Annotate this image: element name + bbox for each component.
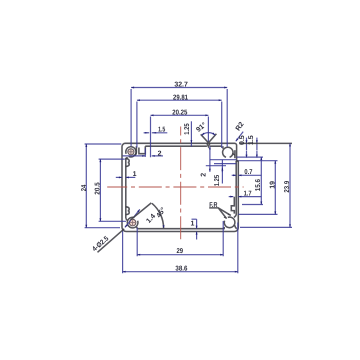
dim 20.25 extension lines [151,117,209,158]
dim 1.5 line with outside arrows [144,132,168,134]
lid slot dim leader x222.4 [221,160,223,184]
dim 20.25 line [151,114,209,116]
top-left screw hole [128,149,134,155]
right wall lower inner line [235,161,237,215]
svg-text:2: 2 [158,150,162,157]
dim 38.6 line [123,271,238,273]
svg-text:2: 2 [200,173,207,177]
extension line y157 [237,156,264,158]
lid slot extension line y165.7 [206,165,226,167]
right wall upper inner line [234,150,236,158]
top-left boss hook [133,146,136,155]
svg-text:29: 29 [177,248,184,255]
svg-text:1.5: 1.5 [248,135,255,145]
angle 45 arm [131,203,152,220]
top-left inner ledge [126,157,128,159]
dim 29.81 line [137,99,222,101]
svg-text:0.7: 0.7 [244,169,252,176]
profile top wall inner line [145,145,222,147]
dim 15.6 line [260,157,262,204]
bottom-left screw boss channel [127,217,138,228]
bottom-left boss floor fillet [126,218,138,228]
dim 24 line [85,144,87,228]
svg-text:23.9: 23.9 [284,181,291,193]
svg-text:1.7: 1.7 [244,191,252,198]
profile outer outline [122,143,238,231]
svg-text:1.5: 1.5 [158,126,165,133]
angle 91 arms [201,134,217,143]
angle 91 arc [202,133,215,136]
dim 29.81 extension lines [137,102,222,149]
top wall extension line right [240,142,293,144]
svg-text:0.5: 0.5 [239,135,246,145]
bottom-left screw cross [130,220,135,225]
right wall groove lip notch [231,197,234,214]
svg-text:20.25: 20.25 [172,109,187,116]
right wall step at ledge [237,160,239,162]
svg-text:1: 1 [133,171,137,178]
angle 45 arc [152,203,164,228]
bottom-right screw boss channel [224,217,235,228]
radius R2 leader [236,132,243,142]
lid slot extension line y163.6 [214,163,236,165]
dim 29 line [137,254,223,256]
bottom wall inner line [138,228,225,230]
F.R leader arrows [224,216,227,218]
svg-text:19: 19 [270,181,277,189]
left wall rib lower [126,207,129,215]
lid slot dim leader x209.9 [209,146,211,171]
svg-text:1.25: 1.25 [214,175,221,186]
svg-text:38.6: 38.6 [175,265,187,272]
dim 1 wall line [116,176,122,178]
bottom-left screw hole [129,219,136,226]
dim 1.7 line [229,196,234,198]
dim 23.9 line [289,143,291,227]
left wall inner line [125,158,127,218]
dim 1.4 line [125,220,131,227]
red vertical centerline [180,127,182,242]
left extension line y144 [85,143,122,145]
svg-text:32.7: 32.7 [174,82,188,89]
left extension line y227.7 [85,227,120,229]
dim 32.7 line [131,87,227,89]
top-left corner step [139,146,145,154]
dim 1 floor leaders [196,219,198,228]
top-left screw cross [129,149,134,154]
left extension line y159.1 [99,158,125,160]
dim 29 extension lines [137,221,223,256]
dim 32.7 extension lines [131,89,227,147]
top-right screw boss channel [223,147,233,157]
V-notch in top wall [207,143,210,146]
top-left screw boss channel [126,147,136,157]
dim 2 extension line [144,148,146,157]
svg-text:F.R: F.R [209,202,217,209]
red horizontal centerline [107,186,243,188]
dim 1.25 leader [190,121,192,143]
extension line y227.4 [240,226,292,228]
svg-text:15.6: 15.6 [255,179,262,191]
dim 0.5 leader [246,138,248,144]
hole callout leader [98,229,125,253]
extension line y214.4 [239,213,278,215]
dim 1.5 right leader [256,138,258,144]
lid slot extension line y159.7 [210,159,236,161]
left wall rib upper [126,159,129,167]
dim 2 line [123,155,146,157]
svg-text:24: 24 [81,185,88,192]
svg-text:1.25: 1.25 [184,123,191,134]
top-right boss left lip [222,146,224,149]
left extension line y221.3 [99,220,126,222]
F.R leader [209,208,231,219]
svg-text:29.81: 29.81 [173,94,188,101]
extension line y204.5 [242,204,263,206]
bottom-right boss wall fillet [224,215,237,228]
svg-text:20.5: 20.5 [95,182,102,195]
dim 0.7 line [232,174,236,176]
extension line y160.7 [239,160,278,162]
svg-text:1: 1 [190,221,194,228]
dim 38.6 extension lines [123,223,238,274]
dim 19 line [274,161,276,215]
top-right boss right lip [233,153,235,155]
dim 20.5 line [99,159,101,221]
